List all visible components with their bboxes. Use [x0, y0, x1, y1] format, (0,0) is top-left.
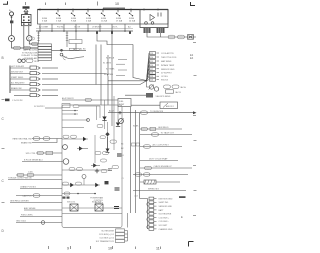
diode D2 — [102, 117, 106, 121]
output row 3 — [140, 160, 178, 162]
svg-text:C15: C15 — [150, 61, 153, 63]
wire label G108 — [178, 35, 185, 39]
bus connector marks — [96, 32, 131, 34]
relay K3 — [160, 102, 178, 109]
wire label — [141, 111, 148, 114]
svg-text:FUSE: FUSE — [86, 18, 92, 20]
connector stack C4 — [38, 44, 52, 61]
svg-text:B: B — [2, 56, 4, 60]
oval label — [73, 105, 79, 108]
loom curve — [62, 55, 84, 59]
svg-text:A21 18BR: A21 18BR — [39, 26, 49, 29]
output row 0 — [140, 128, 182, 130]
internal rail — [62, 119, 88, 121]
svg-text:C18: C18 — [150, 73, 153, 75]
terminal — [30, 72, 37, 75]
ignition switch SW1 — [22, 15, 32, 26]
svg-text:IGN SW OUT: IGN SW OUT — [11, 72, 24, 74]
svg-text:ASD SENSE: ASD SENSE — [24, 207, 36, 210]
wire label — [172, 85, 179, 88]
terminal row — [62, 110, 78, 112]
svg-text:COOLANT TE: COOLANT TE — [161, 52, 174, 55]
connector stub C3 — [157, 28, 165, 33]
svg-text:ST RUN A21 BR: ST RUN A21 BR — [22, 51, 38, 54]
wire label G107 — [168, 35, 175, 39]
diag pin 3 — [116, 236, 125, 239]
ignition feed bus — [36, 30, 133, 32]
svg-text:9 20A: 9 20A — [71, 20, 77, 23]
internal rail — [62, 184, 100, 186]
bundle label — [133, 126, 139, 128]
svg-text:GEN FIELD DRIVER: GEN FIELD DRIVER — [10, 201, 29, 203]
svg-text:CHECK ENGINE LP: CHECK ENGINE LP — [154, 166, 173, 168]
connector stub C2 — [144, 28, 151, 33]
wire row with label — [62, 99, 92, 101]
fuse F3 — [87, 10, 90, 16]
output row 7 — [133, 190, 186, 192]
bundle labels — [121, 144, 124, 151]
svg-text:MAP SENS: MAP SENS — [161, 60, 172, 63]
svg-text:BATT: BATT — [159, 209, 165, 212]
terminal pair — [117, 154, 122, 156]
oval label — [71, 135, 77, 138]
svg-text:FUEL LEVEL: FUEL LEVEL — [21, 215, 34, 217]
wire label — [164, 85, 171, 88]
wire row 4 — [22, 161, 62, 163]
splice fan point — [146, 80, 148, 82]
driver Q4 — [70, 183, 74, 187]
svg-text:IGN COIL: IGN COIL — [67, 202, 75, 204]
svg-text:VEH SPD SENS: VEH SPD SENS — [156, 96, 171, 98]
wire label box — [69, 40, 82, 44]
output row 1 — [140, 134, 192, 136]
label text — [80, 48, 86, 51]
svg-text:FUSE: FUSE — [71, 18, 77, 20]
wire — [52, 49, 87, 51]
wire row 12 — [16, 222, 62, 224]
plug P1 — [10, 21, 13, 24]
fuse F5 — [117, 10, 120, 16]
svg-text:E4: E4 — [190, 56, 194, 60]
svg-text:17 10A: 17 10A — [116, 20, 123, 23]
wire — [29, 26, 38, 44]
terminal row — [62, 113, 78, 115]
wire row 2 — [32, 139, 57, 143]
svg-text:C16: C16 — [150, 65, 153, 67]
svg-text:9: 9 — [67, 247, 69, 251]
svg-text:RUN A22 YL/WH: RUN A22 YL/WH — [22, 54, 38, 57]
svg-text:3 10A: 3 10A — [42, 20, 48, 23]
bundle labels — [122, 155, 138, 198]
terminal — [166, 90, 174, 93]
svg-text:A/C CLUTCH RLY: A/C CLUTCH RLY — [153, 144, 170, 147]
fuse F1 — [57, 10, 60, 16]
svg-text:K4 BK: K4 BK — [133, 126, 139, 128]
svg-text:SPD CTRL: SPD CTRL — [26, 153, 37, 155]
svg-text:10: 10 — [115, 2, 119, 6]
wire — [131, 104, 160, 106]
diag pin 1 — [116, 229, 125, 232]
sensor connector column rows — [150, 52, 156, 82]
svg-text:PARK NEUTRAL SW: PARK NEUTRAL SW — [13, 138, 32, 141]
wire row 6 — [8, 179, 62, 181]
svg-text:K6: K6 — [122, 155, 124, 157]
svg-text:11: 11 — [156, 247, 160, 251]
inline connector — [146, 93, 153, 98]
C101 row 2 wire — [10, 73, 30, 75]
resistor R2 — [144, 180, 156, 184]
bus junction dots — [39, 30, 126, 32]
wire label B1 — [26, 59, 33, 62]
fuse block C1 outline — [38, 10, 169, 25]
junction nodes on bus — [39, 9, 159, 11]
oval label — [76, 182, 82, 185]
output bundle verticals — [131, 107, 140, 213]
wire row 3 — [36, 152, 62, 154]
svg-text:5 15A: 5 15A — [56, 20, 62, 23]
fuse F4 — [102, 10, 105, 16]
svg-text:INTAKE TEMP: INTAKE TEMP — [161, 64, 175, 67]
splice S1 — [9, 36, 15, 42]
lamp L1 — [10, 12, 14, 16]
svg-text:START FEED: START FEED — [11, 76, 24, 79]
C101 row 4 wire — [10, 84, 30, 86]
svg-text:C20: C20 — [150, 80, 153, 82]
C101 row 1 wire — [10, 67, 30, 69]
data connector pins — [149, 197, 154, 230]
svg-text:5V SUPPLY: 5V SUPPLY — [161, 73, 172, 75]
wire — [147, 81, 150, 87]
svg-text:BRAKE SW: BRAKE SW — [11, 87, 22, 90]
terminal dots — [11, 16, 13, 18]
svg-text:DUTY CYCLE EVAP: DUTY CYCLE EVAP — [149, 157, 168, 160]
wire — [45, 107, 62, 109]
svg-text:ASD RLY: ASD RLY — [166, 105, 175, 108]
oval label — [63, 135, 69, 138]
svg-text:A1 RD: A1 RD — [80, 48, 86, 51]
svg-text:O2 SIG: O2 SIG — [161, 76, 168, 78]
svg-text:18 BK: 18 BK — [34, 61, 40, 63]
diode D4 — [106, 149, 110, 152]
wire — [11, 23, 13, 35]
svg-text:K1 18 TN: K1 18 TN — [103, 63, 112, 65]
twisted pair T1 — [18, 59, 21, 62]
splice node — [87, 119, 90, 122]
node dots — [77, 193, 96, 195]
svg-text:FUSE: FUSE — [101, 18, 107, 20]
svg-text:BRAKE SW: BRAKE SW — [21, 142, 32, 145]
module name text — [90, 197, 104, 205]
output row 4 — [140, 167, 192, 169]
svg-text:BATT A0 12RD: BATT A0 12RD — [23, 49, 38, 52]
fan ray wires — [147, 53, 150, 81]
output row 2 — [140, 146, 182, 148]
svg-text:K4: K4 — [121, 144, 123, 146]
svg-text:GEN FIELD: GEN FIELD — [158, 127, 169, 129]
svg-text:SCI RECEIVE: SCI RECEIVE — [159, 214, 172, 216]
wire — [24, 26, 38, 48]
hot-at-all-times heading — [103, 7, 125, 9]
frame corner marks and ruler ticks (decorative) — [3, 1, 195, 246]
terminal — [30, 88, 37, 91]
svg-text:THROTTLE POS: THROTTLE POS — [161, 57, 177, 59]
svg-text:IGNITION GND: IGNITION GND — [159, 198, 173, 200]
connector C101 spine — [9, 66, 11, 94]
connector hatch wire — [39, 31, 68, 47]
svg-text:K6 VT/WH: K6 VT/WH — [104, 74, 114, 76]
terminal — [30, 77, 37, 80]
EGR solenoid SP2 — [119, 119, 124, 124]
svg-text:SENSOR GND: SENSOR GND — [161, 69, 175, 71]
terminal pair — [115, 188, 120, 190]
driver Q5 — [95, 183, 99, 187]
wire row 9 — [10, 202, 62, 204]
secondary bus line — [36, 28, 133, 30]
splice label — [29, 37, 35, 40]
bottom rail — [62, 207, 122, 209]
splice diamond — [59, 49, 63, 52]
wire — [12, 42, 39, 49]
bus bar hot feed — [38, 9, 169, 11]
oval label — [97, 125, 103, 128]
wire label A3 — [24, 46, 31, 49]
oval label — [103, 152, 109, 155]
fan-out labels — [103, 58, 115, 76]
svg-text:A142 DB/OR: A142 DB/OR — [62, 97, 74, 100]
svg-text:TORQUE CONV PWM OD: TORQUE CONV PWM OD — [8, 178, 32, 180]
relay K2 box — [118, 99, 131, 107]
C101 row 3 wire — [10, 78, 30, 80]
splice mark — [5, 99, 10, 102]
svg-text:INJECTOR: INJECTOR — [92, 202, 102, 204]
wire label A2 — [14, 46, 21, 49]
diode D3 — [116, 123, 120, 127]
svg-text:FUSE: FUSE — [129, 18, 135, 20]
wire — [111, 31, 113, 126]
reference label C201 — [62, 57, 68, 59]
C101 row 6 wire — [14, 95, 30, 97]
internal wire — [94, 135, 96, 163]
wire — [160, 33, 162, 37]
idle air motor — [149, 85, 153, 89]
svg-text:FUSE: FUSE — [116, 18, 122, 20]
wire — [75, 31, 77, 50]
wire — [133, 45, 147, 81]
oval label — [63, 182, 69, 185]
vertical feeder wires — [96, 45, 108, 85]
ground strap G1 — [23, 6, 30, 14]
svg-text:11 25A: 11 25A — [101, 20, 108, 23]
svg-text:SCI RECEIVE: SCI RECEIVE — [101, 231, 114, 233]
wire bundle into fan — [108, 80, 147, 82]
wire drop routing — [97, 31, 133, 45]
harness text block — [22, 49, 39, 60]
internal wire — [117, 105, 119, 122]
svg-text:SCI TRANSMIT D21: SCI TRANSMIT D21 — [96, 240, 115, 243]
wire — [79, 106, 100, 118]
svg-text:TO SENSORS: TO SENSORS — [150, 111, 164, 113]
diag pin 2 — [116, 232, 125, 235]
internal wire — [113, 96, 115, 150]
svg-text:FUEL: FUEL — [119, 101, 124, 103]
svg-text:4 10A: 4 10A — [86, 20, 92, 23]
gauge G3 — [63, 159, 69, 165]
junction cross — [95, 169, 99, 173]
wire label C6 — [69, 48, 74, 50]
fuse position labels — [42, 18, 136, 23]
oval label — [100, 136, 106, 139]
wire row 1 — [32, 138, 62, 140]
diag pin 4 — [116, 239, 125, 242]
svg-text:A14: A14 — [135, 195, 138, 198]
terminal pair — [114, 207, 119, 209]
internal wire — [104, 100, 106, 129]
svg-text:TO TACH OUT: TO TACH OUT — [161, 132, 175, 135]
oval label — [101, 170, 107, 173]
output row 5 — [133, 174, 188, 176]
wire row 7 — [20, 188, 62, 190]
svg-text:FUSE: FUSE — [42, 18, 48, 20]
svg-text:K2 TN/BK: K2 TN/BK — [106, 68, 115, 70]
svg-text:HOT RUN A22: HOT RUN A22 — [11, 65, 25, 68]
input box — [62, 104, 70, 108]
relay K1 in power box — [140, 10, 168, 28]
wire row 10 — [24, 209, 62, 211]
svg-text:K4 BK/LB: K4 BK/LB — [106, 58, 115, 60]
svg-text:FUSE: FUSE — [56, 18, 62, 20]
svg-text:E: E — [181, 215, 183, 219]
svg-text:KNOCK: KNOCK — [161, 80, 169, 82]
dark mark — [105, 181, 109, 184]
svg-text:C13: C13 — [150, 53, 153, 55]
svg-text:GND G102: GND G102 — [16, 221, 27, 223]
internal rail — [62, 193, 96, 195]
driver Q3 — [93, 163, 97, 167]
diagnostic rows under module — [96, 231, 115, 244]
svg-text:C D4 18 PK: C D4 18 PK — [12, 100, 23, 102]
svg-text:5V SUPPLY: 5V SUPPLY — [34, 106, 45, 108]
fuse F6 — [130, 10, 133, 16]
driver Q1 — [79, 146, 83, 150]
oval label — [64, 192, 70, 195]
wire from stubs to right chain — [147, 33, 196, 37]
wire drops from fuse block to bus — [40, 24, 125, 31]
splice S2 — [27, 36, 32, 41]
connector terminal A1 — [9, 10, 12, 12]
driver Q0 — [83, 137, 87, 141]
wire label C7 — [75, 48, 80, 50]
svg-text:C14: C14 — [150, 57, 153, 59]
svg-text:CAM POS: CAM POS — [22, 195, 32, 198]
svg-text:CCD BUS -: CCD BUS - — [159, 221, 170, 223]
label text — [34, 61, 40, 63]
terminal — [30, 83, 37, 86]
bottom rail 2 — [62, 213, 122, 215]
wire — [11, 18, 13, 21]
svg-text:SHIFT IND: SHIFT IND — [159, 202, 169, 204]
svg-text:CHASSIS GND: CHASSIS GND — [159, 228, 173, 231]
data connector spine — [147, 199, 149, 230]
svg-text:CCD BUS (-) D2: CCD BUS (-) D2 — [99, 238, 115, 240]
svg-text:C19: C19 — [150, 76, 153, 78]
coil connector X1 — [70, 204, 78, 211]
diode D1 — [188, 35, 194, 40]
diag hook wires — [125, 231, 128, 242]
svg-text:CCD BUS +: CCD BUS + — [159, 217, 171, 219]
oval label — [77, 168, 83, 171]
svg-text:C17: C17 — [150, 69, 153, 71]
svg-text:14 15A: 14 15A — [129, 20, 136, 23]
svg-text:10: 10 — [108, 247, 112, 251]
oval label — [95, 152, 101, 155]
svg-text:IAC B: IAC B — [176, 91, 182, 94]
relay coil R1 — [82, 175, 86, 179]
svg-text:SPEED SIG: SPEED SIG — [148, 188, 159, 190]
wire row 8 — [16, 195, 62, 197]
fuse F2 — [72, 10, 75, 16]
gauge G2 — [63, 145, 68, 150]
label — [28, 172, 34, 174]
svg-text:A/C REQUEST: A/C REQUEST — [11, 82, 25, 85]
internal rail — [62, 138, 88, 140]
grommet — [60, 53, 63, 56]
internal rail — [62, 127, 84, 129]
coil connector X2 — [95, 204, 103, 211]
splice diamond — [105, 132, 109, 136]
oval label — [110, 140, 117, 143]
dark marks — [63, 197, 66, 199]
oval label — [69, 168, 75, 171]
terminal mark — [108, 169, 112, 171]
fuse block circuit labels — [39, 26, 131, 29]
svg-text:CRANK POS SIG: CRANK POS SIG — [20, 185, 36, 188]
terminal — [30, 94, 37, 97]
svg-text:IAC A: IAC A — [181, 86, 187, 89]
svg-text:SENSOR GND: SENSOR GND — [159, 206, 173, 208]
wire row 5 — [16, 174, 62, 176]
svg-text:B PLUS SENSE A14: B PLUS SENSE A14 — [24, 158, 43, 161]
svg-text:Z1: Z1 — [122, 178, 124, 180]
internal rail — [62, 169, 110, 171]
wire row 11 — [20, 216, 62, 218]
junction cross — [118, 111, 121, 114]
svg-text:CCD BUS (+) D1: CCD BUS (+) D1 — [99, 234, 115, 236]
svg-text:SCI XMIT: SCI XMIT — [159, 225, 168, 227]
module M1 PCM outline — [62, 105, 122, 228]
C101 row 5 wire — [10, 89, 30, 91]
wire — [100, 45, 102, 106]
wire from module to diag — [127, 213, 129, 228]
main output bus — [108, 112, 193, 114]
internal wire — [97, 106, 108, 132]
wire label A5 — [32, 42, 39, 45]
terminal — [30, 66, 37, 69]
node label row — [34, 106, 45, 108]
